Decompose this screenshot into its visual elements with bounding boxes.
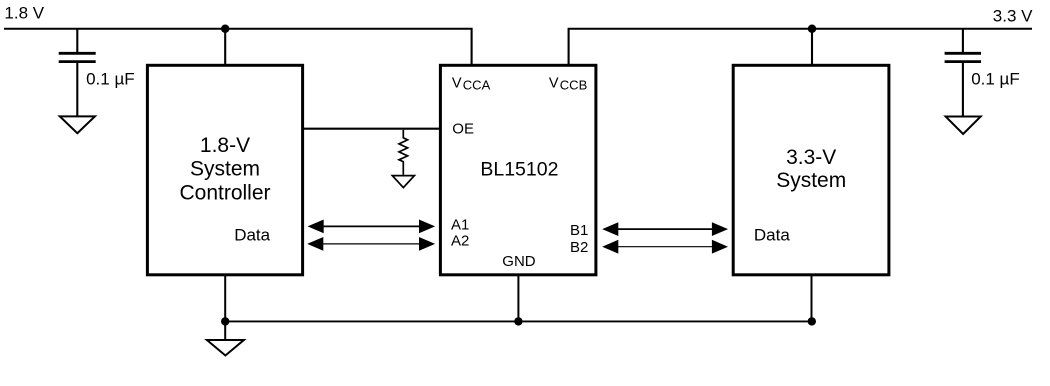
svg-text:A2: A2 (451, 233, 469, 250)
IC U2 BL15102 box (440, 65, 596, 274)
svg-text:Controller: Controller (179, 181, 270, 204)
svg-text:B1: B1 (570, 222, 588, 239)
wire 3.3V system ground drop (811, 275, 813, 322)
ground symbol resistor R1 (392, 176, 414, 188)
svg-text:A1: A1 (451, 217, 469, 234)
svg-text:1.8 V: 1.8 V (4, 4, 44, 23)
block U1 1.8-V System Controller box (147, 65, 302, 274)
wire right capacitor bottom lead (962, 63, 964, 116)
pin label VCCA (452, 75, 491, 92)
node junction dot ground rail left (221, 317, 229, 325)
svg-text:V: V (452, 75, 462, 91)
ground symbol left capacitor (60, 116, 95, 133)
wire controller supply drop (224, 29, 226, 66)
node junction dot ground rail right (808, 317, 816, 325)
capacitor C2 0.1uF plates (945, 53, 981, 61)
bus arrow A1 (controller to BL15102) (308, 220, 436, 234)
svg-text:0.1 µF: 0.1 µF (971, 70, 1020, 89)
svg-text:BL15102: BL15102 (480, 159, 558, 181)
svg-text:System: System (190, 158, 260, 181)
resistor R1 pulldown on OE (399, 130, 408, 175)
ground symbol right capacitor (946, 117, 981, 135)
svg-text:System: System (776, 169, 846, 192)
wire left capacitor top lead (76, 29, 78, 52)
svg-text:CCA: CCA (463, 78, 491, 93)
ground symbol main rail (207, 340, 244, 356)
wire ground symbol lead (224, 321, 226, 339)
wire OE net from controller to BL15102 (303, 128, 441, 130)
wire 1.8V rail (turns down into VCCA) (4, 29, 472, 66)
node junction dot 1.8V rail to controller (221, 25, 229, 33)
wire controller ground drop (224, 275, 226, 322)
node junction dot 3.3V rail to system (808, 25, 816, 33)
svg-text:CCB: CCB (560, 78, 587, 93)
svg-text:Data: Data (754, 226, 790, 245)
svg-text:3.3 V: 3.3 V (993, 6, 1033, 25)
wire left capacitor bottom lead (76, 63, 78, 116)
pin label VCCB (549, 75, 587, 92)
svg-text:B2: B2 (570, 239, 588, 256)
block U3 3.3-V System box (733, 65, 889, 274)
block U3 title 3.3-V System (776, 146, 846, 192)
wire BL15102 GND drop (517, 275, 519, 322)
svg-text:Data: Data (234, 226, 270, 245)
wire 3.3V system supply drop (811, 29, 813, 66)
capacitor C1 0.1uF plates (59, 53, 96, 61)
svg-text:OE: OE (452, 121, 474, 138)
wire right capacitor top lead (962, 29, 964, 52)
wire 3.3V rail (rises from VCCB) (569, 29, 1032, 66)
bus arrow A2 (controller to BL15102) (307, 237, 435, 251)
block U1 title 1.8-V System Controller (179, 134, 270, 205)
node junction dot ground rail center (514, 317, 522, 325)
svg-text:GND: GND (502, 253, 536, 270)
bus arrow B2 (BL15102 to 3.3V system) (602, 240, 728, 254)
wire ground rail (225, 320, 812, 322)
svg-text:3.3-V: 3.3-V (786, 146, 836, 169)
bus arrow B1 (BL15102 to 3.3V system) (602, 222, 728, 236)
svg-text:V: V (549, 75, 559, 91)
svg-text:1.8-V: 1.8-V (200, 134, 250, 157)
svg-text:0.1 µF: 0.1 µF (86, 70, 135, 89)
